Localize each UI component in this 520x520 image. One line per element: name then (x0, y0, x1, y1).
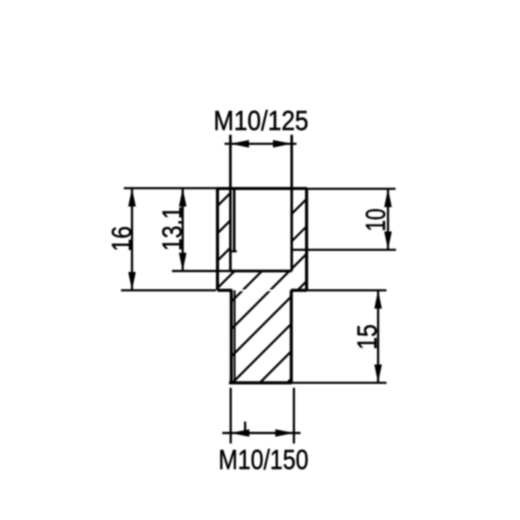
svg-text:15: 15 (351, 324, 382, 350)
outer wall left of upper cylinder (216, 189, 219, 291)
arrowhead 13.1 bottom (179, 253, 187, 271)
svg-text:10: 10 (360, 209, 391, 232)
arrowhead 10 bottom (384, 232, 392, 250)
arrowhead 15 top (374, 290, 382, 308)
arrowhead right M10/125 (273, 140, 292, 148)
extension line of top face to the left (for dims 16 / 13.1) (124, 187, 218, 189)
extension line of top face to the right (for dim 10) (307, 188, 396, 190)
dim line 10 (387, 189, 389, 250)
hatching right wall (0, 120, 520, 470)
thread minor line left (inner, x=234.2) (233, 189, 236, 252)
arrowhead 15 bottom (374, 365, 382, 383)
arrowhead 16 bottom (128, 272, 136, 290)
svg-text:M10/150: M10/150 (219, 444, 309, 475)
extension+bore line right (x=291.7) (290, 135, 293, 271)
extension line 16 bottom (left) (121, 289, 216, 291)
stud thread minor thin line left (234, 290, 236, 383)
bottom of threaded bore + extension for 13.1 (172, 270, 230, 272)
dim line 16 (131, 188, 133, 290)
hatching left wall (0, 120, 520, 470)
hatching stud (0, 120, 520, 470)
dim line 13.1 (182, 188, 184, 271)
arrowhead left M10/125 (230, 140, 249, 148)
outer wall right of upper cylinder (305, 189, 308, 291)
dimension line M10/125 (225, 143, 297, 145)
arrowhead 16 top (128, 188, 136, 206)
arrowhead right M10/150 (275, 429, 294, 437)
arrowhead left M10/150 (231, 429, 250, 437)
shoulder left segment (218, 289, 233, 292)
dim line 15 (377, 290, 379, 383)
extension+bore line left (thread major, x=230.4) (229, 135, 232, 271)
stud outer wall left (230, 290, 233, 383)
stud outer wall right (290, 290, 293, 383)
svg-text:16: 16 (106, 226, 137, 252)
stud bottom face (229, 381, 292, 384)
thread end jog left (230, 250, 236, 252)
top face of upper cylinder (218, 187, 308, 190)
arrowhead 10 top (384, 189, 392, 207)
extension line 15 top (right) (307, 289, 387, 291)
extension line for dim 10 (bottom of thread) (292, 249, 396, 251)
shoulder right segment (291, 289, 307, 292)
extension line 15 bottom (right) (292, 382, 387, 384)
extension line M10/150 left (230, 388, 232, 444)
artifact tick on M10/150 dim line (244, 422, 246, 433)
arrowhead 13.1 top (179, 188, 187, 206)
svg-text:13.1: 13.1 (157, 206, 188, 251)
hatching middle band (0, 120, 520, 470)
svg-text:M10/125: M10/125 (214, 105, 309, 136)
extension line M10/150 right (293, 388, 295, 444)
dimension line M10/150 (222, 432, 300, 434)
